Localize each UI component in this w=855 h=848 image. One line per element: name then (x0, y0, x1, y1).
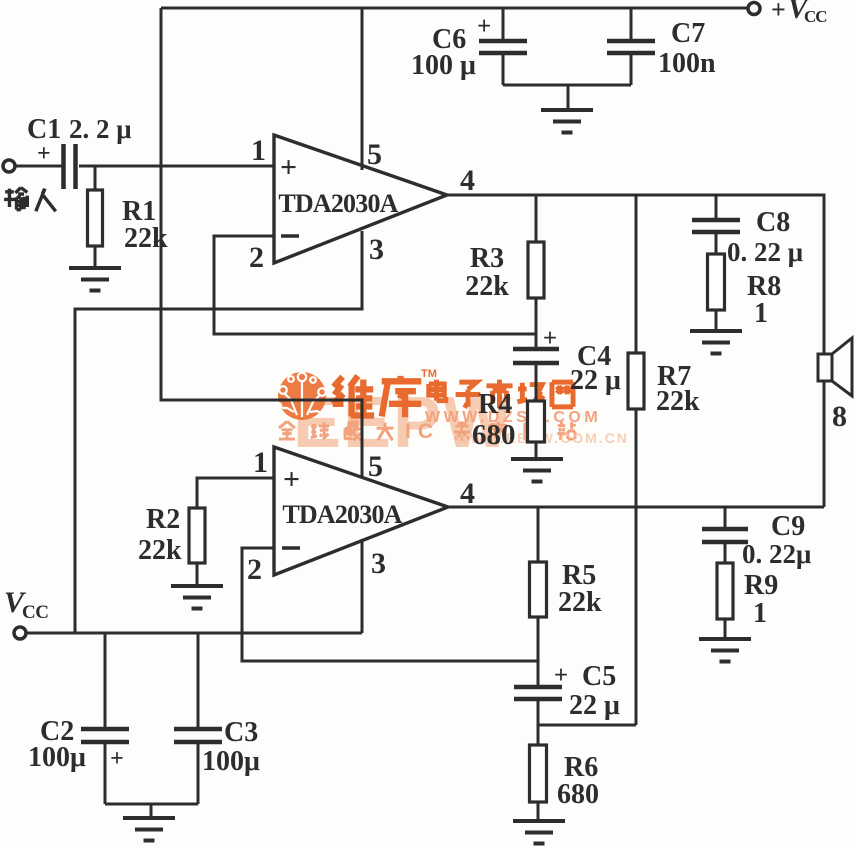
resistor R3 (528, 242, 544, 298)
+Vcc terminal (748, 3, 760, 15)
capacitor C8 (692, 220, 740, 232)
Vcc terminal (14, 627, 26, 639)
ground R1 (69, 268, 121, 291)
svg-text:8: 8 (832, 400, 847, 433)
svg-text:1: 1 (754, 298, 768, 329)
resistor R9 (717, 563, 733, 619)
capacitor C3 (174, 729, 222, 742)
svg-text:+: + (554, 662, 568, 689)
svg-text:22 μ: 22 μ (570, 365, 621, 396)
capacitor C5 (514, 687, 562, 699)
input terminal (3, 160, 15, 172)
svg-text:3: 3 (369, 233, 384, 266)
capacitor C6 (479, 41, 527, 53)
capacitor C7 (607, 41, 655, 53)
svg-text:5: 5 (368, 450, 383, 483)
wire R3 leads (535, 195, 538, 349)
svg-text:680: 680 (472, 419, 516, 451)
ground R6 (513, 821, 565, 844)
wire C2 leads (104, 633, 107, 804)
svg-text:+: + (477, 13, 491, 40)
watermark 维库 (333, 376, 374, 417)
svg-text:+: + (543, 325, 557, 352)
wire C8 leads (715, 195, 718, 254)
wire input to C1 (16, 165, 62, 168)
wire +Vcc rail down to U2 pin5 (161, 8, 362, 477)
svg-text:22k: 22k (558, 587, 602, 618)
svg-text:4: 4 (460, 477, 475, 510)
svg-text:TM: TM (421, 368, 437, 380)
svg-text:C7: C7 (671, 18, 705, 49)
wire C2-C3 junction (105, 803, 198, 806)
svg-text:5: 5 (367, 138, 382, 171)
resistor R4 (528, 401, 545, 442)
wire C1 to U1 pin1 (79, 165, 274, 168)
wire C5 to R6 (537, 699, 540, 821)
svg-text:680: 680 (557, 779, 599, 810)
wire +Vcc top rail (161, 7, 747, 10)
watermark 全球最大IC采购网站 (279, 421, 295, 439)
svg-text:2: 2 (249, 241, 264, 274)
resistor R7 (628, 353, 644, 409)
svg-text:CC: CC (22, 602, 48, 623)
wire R9 to ground (724, 619, 727, 639)
wire to ground (150, 804, 153, 818)
watermark logo circle (278, 372, 326, 420)
wire C9 leads (724, 507, 727, 563)
wire U2 pin1 and R2 leads (197, 478, 274, 586)
wire U1 pin5 to +Vcc rail (361, 8, 364, 170)
svg-text:R4: R4 (478, 389, 512, 420)
svg-text:100n: 100n (658, 48, 716, 79)
svg-text:TDA2030A: TDA2030A (282, 500, 402, 529)
capacitor C1 (64, 144, 76, 189)
svg-text:0. 22μ: 0. 22μ (742, 539, 811, 569)
wire C3 leads (197, 633, 200, 804)
svg-text:100μ: 100μ (28, 742, 86, 773)
wire C6 leads (502, 8, 505, 85)
wire C4 to R4 (535, 363, 538, 459)
resistor R2 (189, 508, 205, 563)
wire C6-C7 junction (503, 84, 631, 87)
ground C2/C3 (123, 818, 175, 841)
svg-text:22k: 22k (124, 223, 168, 254)
ground C6/C7 (541, 110, 593, 133)
capacitor C4 (513, 349, 559, 363)
capacitor C9 (702, 529, 748, 542)
wire C7 leads (630, 8, 633, 85)
svg-text:C9: C9 (771, 511, 805, 542)
svg-text:+: + (771, 0, 786, 24)
watermark 电子市场网 (429, 380, 446, 401)
wire U1 pin2 feedback (214, 236, 536, 334)
wire C5/R6 node to R7 (538, 724, 636, 727)
svg-text:3: 3 (371, 547, 386, 580)
op-amp U1 TDA2030A (274, 135, 447, 263)
wire U1 output to speaker (447, 195, 824, 354)
svg-text:22k: 22k (465, 271, 509, 302)
svg-text:+: + (110, 746, 124, 772)
label 输入 (4, 188, 27, 210)
svg-text:1: 1 (251, 134, 266, 167)
svg-text:100 μ: 100 μ (411, 50, 476, 81)
wire R8 to ground (715, 310, 718, 331)
resistor R8 (708, 254, 725, 310)
svg-text:+: + (37, 141, 51, 167)
wire R5 leads (537, 507, 540, 687)
wire U2 pin3 to Vcc rail (361, 539, 364, 633)
svg-text:+: + (283, 463, 300, 496)
svg-text:C5: C5 (582, 661, 616, 692)
svg-text:R2: R2 (146, 504, 180, 535)
svg-text:C8: C8 (756, 207, 790, 238)
capacitor C2 (81, 729, 129, 742)
svg-text:C3: C3 (224, 717, 258, 748)
svg-text:2: 2 (247, 553, 262, 586)
resistor R5 (530, 562, 547, 617)
svg-text:4: 4 (460, 164, 475, 197)
wire R1 leads (94, 166, 97, 268)
svg-text:R3: R3 (470, 243, 504, 274)
svg-text:+: + (280, 151, 297, 184)
wire R7 leads (635, 195, 638, 725)
wire U2 pin2 feedback (242, 548, 538, 661)
speaker 8 ohm (818, 354, 832, 381)
svg-text:1: 1 (753, 598, 767, 629)
wire Vcc rail (27, 632, 362, 635)
svg-text:0. 22 μ: 0. 22 μ (727, 237, 803, 267)
wire to ground (567, 85, 570, 109)
svg-text:TDA2030A: TDA2030A (278, 189, 398, 218)
resistor R6 (530, 745, 547, 802)
svg-text:22k: 22k (138, 535, 182, 566)
op-amp U2 TDA2030A (274, 447, 448, 575)
wire U2 output (448, 506, 824, 509)
svg-text:22 μ: 22 μ (569, 690, 620, 721)
wire U1 pin3 to Vcc rail (75, 231, 362, 633)
ground R8 (690, 331, 742, 354)
svg-text:2. 2 μ: 2. 2 μ (69, 114, 132, 144)
svg-text:22k: 22k (656, 386, 700, 417)
svg-text:R9: R9 (744, 570, 778, 601)
ground R4 (511, 459, 563, 482)
svg-text:1: 1 (253, 446, 268, 479)
resistor R1 (88, 190, 103, 246)
svg-text:100μ: 100μ (202, 746, 260, 777)
wire speaker to U2 output (823, 381, 826, 507)
svg-text:IC: IC (405, 420, 440, 443)
ground R9 (699, 639, 751, 662)
ground R2 (171, 586, 223, 609)
svg-text:CC: CC (804, 7, 827, 26)
